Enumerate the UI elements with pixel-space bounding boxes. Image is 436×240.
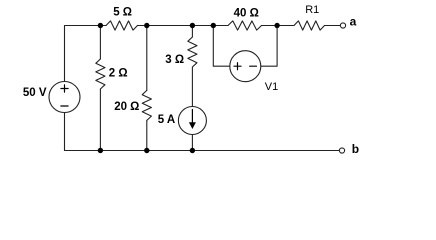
resistor R1 zigzag <box>294 21 325 30</box>
wire to terminal a <box>325 25 341 27</box>
V1 minus sign <box>250 65 257 67</box>
wire 2ohm branch lower <box>99 89 101 151</box>
voltage source 50V circle <box>49 82 80 113</box>
svg-text:3 Ω: 3 Ω <box>165 54 184 66</box>
wire 5A source lower <box>191 135 193 151</box>
node dot top V1 left <box>211 23 216 28</box>
svg-text:R1: R1 <box>305 4 319 16</box>
5A arrow <box>191 110 193 124</box>
terminal b open circle <box>339 148 344 153</box>
wire top right of 40ohm <box>262 25 295 27</box>
current source 5A circle <box>178 107 206 135</box>
50V minus sign <box>61 105 68 107</box>
resistor 20ohm zigzag <box>142 90 151 120</box>
wire bottom rail <box>65 150 340 152</box>
wire top middle <box>138 25 229 27</box>
svg-text:50 V: 50 V <box>23 87 47 99</box>
wire 20ohm branch upper <box>146 26 148 91</box>
wire 20ohm branch lower <box>146 120 148 150</box>
node dot top 3ohm <box>190 23 195 28</box>
node dot top 20ohm <box>144 23 149 28</box>
svg-text:b: b <box>352 142 359 156</box>
resistor 2ohm zigzag <box>96 59 105 89</box>
wire 2ohm branch upper <box>99 26 101 60</box>
wire top-left rail upper <box>65 26 107 82</box>
node dot bottom 5A <box>190 148 195 153</box>
node dot top 2ohm <box>98 23 103 28</box>
svg-text:V1: V1 <box>265 81 278 93</box>
wire 3ohm to 5A source <box>191 67 193 107</box>
svg-text:2 Ω: 2 Ω <box>109 67 128 79</box>
resistor 40ohm zigzag <box>228 21 262 30</box>
terminal a open circle <box>340 23 345 28</box>
svg-text:40 Ω: 40 Ω <box>234 8 259 20</box>
svg-text:20 Ω: 20 Ω <box>114 101 139 113</box>
50V plus sign <box>61 85 68 92</box>
svg-text:5 A: 5 A <box>158 114 175 126</box>
resistor 3ohm zigzag <box>188 37 197 67</box>
V1 plus sign <box>234 63 241 70</box>
node dot bottom 20ohm <box>144 148 149 153</box>
voltage source V1 circle <box>230 51 261 82</box>
svg-text:5 Ω: 5 Ω <box>113 7 132 19</box>
wire left rail lower <box>64 113 66 151</box>
wire V1 branch left <box>213 26 230 67</box>
resistor R 5ohm zigzag <box>106 21 138 30</box>
wire 3ohm branch upper <box>191 26 193 38</box>
node dot top V1 right <box>274 23 279 28</box>
wire V1 branch right <box>261 26 277 67</box>
node dot bottom 2ohm <box>98 148 103 153</box>
svg-text:a: a <box>350 15 357 29</box>
